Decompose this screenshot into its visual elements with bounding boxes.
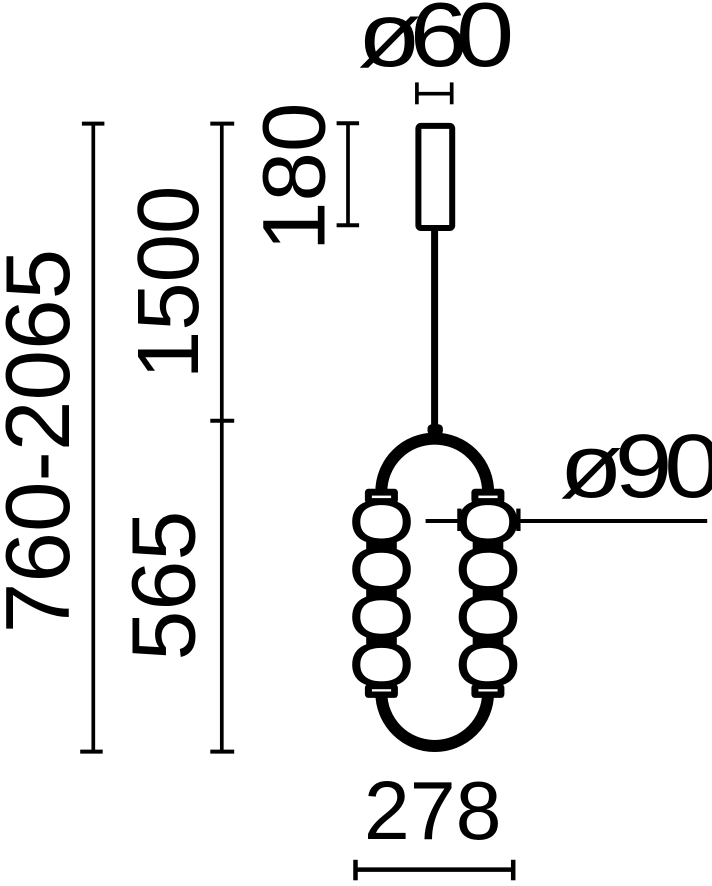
svg-text:1500: 1500 xyxy=(120,186,217,380)
svg-text:180: 180 xyxy=(243,102,343,251)
svg-text:ø90: ø90 xyxy=(559,416,712,517)
svg-text:760-2065: 760-2065 xyxy=(0,249,89,634)
svg-text:278: 278 xyxy=(364,765,502,857)
svg-text:ø60: ø60 xyxy=(357,0,510,85)
svg-text:565: 565 xyxy=(115,511,215,661)
